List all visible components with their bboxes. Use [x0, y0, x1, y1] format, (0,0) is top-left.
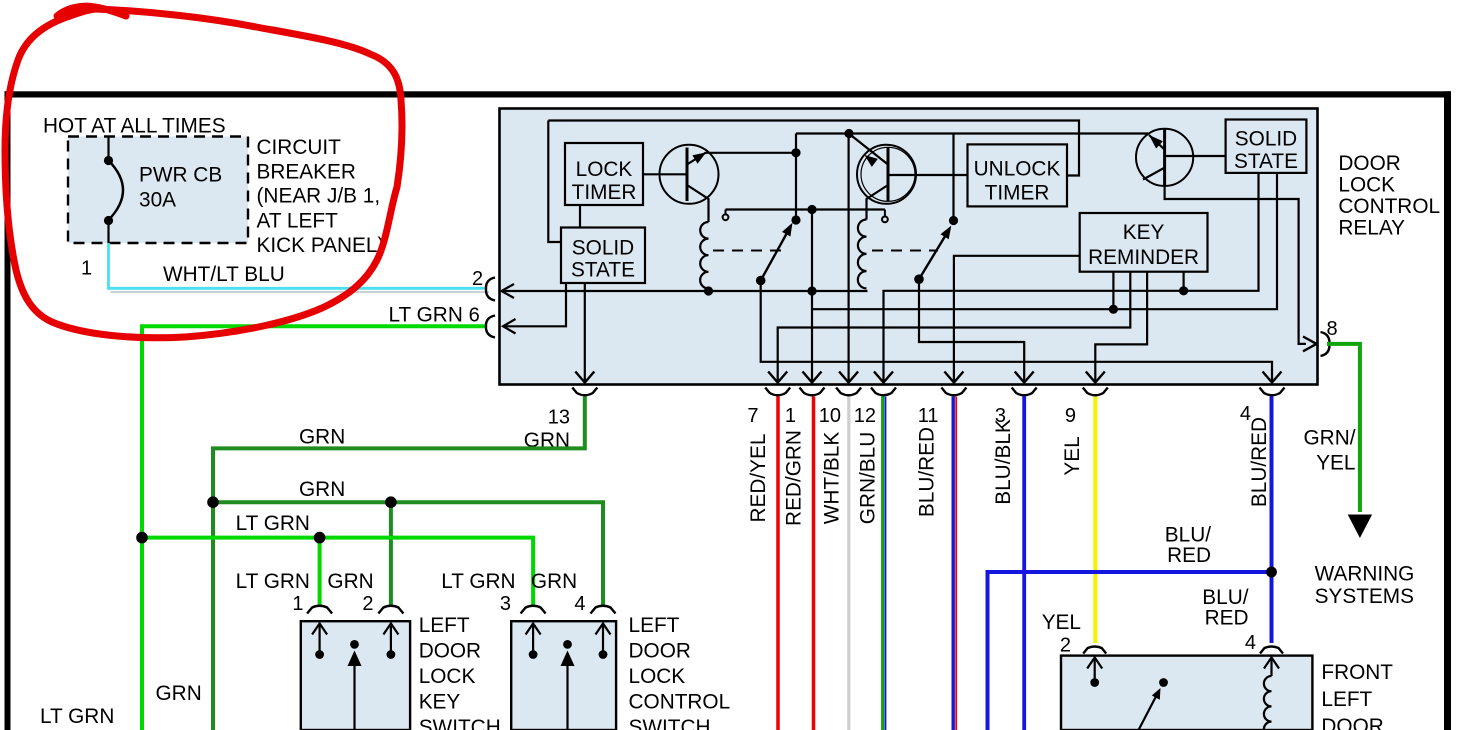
node: contact line junction to pin 1	[807, 205, 816, 214]
connector brace pin 6	[486, 316, 495, 338]
wire arrow input pin 2 inside relay	[502, 284, 868, 298]
svg-text:PWR CB: PWR CB	[139, 164, 222, 187]
connector brace key switch pin 1	[307, 606, 332, 614]
connector brace door pin 4	[1260, 647, 1283, 654]
relay coil K2	[858, 220, 867, 289]
svg-text:LT GRN: LT GRN	[236, 570, 310, 593]
wire LT GRN branch	[142, 538, 533, 607]
relay coil K1	[700, 222, 708, 289]
svg-text:11: 11	[918, 405, 939, 427]
contact line between relay contacts	[723, 210, 888, 223]
svg-text:GRN/BLU: GRN/BLU	[857, 432, 880, 524]
pin 7 arrow and connector	[765, 372, 790, 396]
wire BLU/BLK pin 3	[1022, 397, 1026, 730]
wire LT GRN to key switch pin 1	[318, 538, 322, 607]
svg-text:4: 4	[574, 593, 585, 615]
svg-text:LOCK: LOCK	[576, 158, 633, 181]
svg-text:CIRCUIT: CIRCUIT	[257, 136, 342, 159]
wire H3 pin 7 to key reminder	[778, 272, 1131, 381]
solid state box right	[1226, 120, 1307, 174]
wire key reminder to pin 9	[1095, 272, 1147, 381]
pin 12 arrow and connector	[871, 372, 896, 396]
svg-text:2: 2	[1060, 635, 1071, 657]
annotation: red hand-drawn circle around circuit breaker	[5, 6, 402, 338]
node: wire B junction to pin 10	[844, 129, 853, 138]
pin 4 arrow and connector	[1260, 372, 1285, 396]
svg-text:WARNING: WARNING	[1315, 563, 1415, 586]
wire H4 SW1 pivot to pin 4	[761, 284, 1272, 381]
svg-text:KEY: KEY	[1123, 221, 1165, 244]
svg-text:YEL: YEL	[1042, 611, 1081, 634]
svg-text:1: 1	[785, 405, 796, 427]
wire lock timer to solid state	[579, 205, 581, 228]
node: GRN junction 2	[385, 496, 397, 508]
svg-text:TIMER: TIMER	[572, 181, 637, 204]
wire SW2 pivot to pin 3	[919, 283, 1024, 381]
arrow to warning systems	[1348, 515, 1372, 539]
front left door box M1	[1061, 656, 1312, 730]
left door lock key switch box S1	[301, 621, 410, 730]
lock timer box U1	[565, 143, 643, 205]
svg-text:LOCK: LOCK	[629, 665, 686, 688]
wire H1 pin 12 to solid state leg A	[884, 174, 1259, 381]
wire BLU/RED pin 11	[953, 397, 956, 730]
svg-text:REMINDER: REMINDER	[1088, 246, 1199, 269]
svg-text:13: 13	[548, 407, 570, 429]
label CIRCUIT BREAKER (NEAR J/B 1, AT LEFT KICK PANEL)	[257, 136, 385, 257]
connector brace control switch pin 4	[591, 606, 616, 614]
svg-text:7: 7	[747, 405, 758, 427]
connector brace control switch pin 3	[521, 606, 546, 614]
transistor Q2	[850, 135, 968, 220]
svg-text:AT LEFT: AT LEFT	[257, 210, 339, 233]
svg-text:RED: RED	[1205, 607, 1249, 630]
svg-text:HOT AT ALL TIMES: HOT AT ALL TIMES	[43, 115, 226, 138]
node: coil K1 to wire1	[704, 286, 713, 295]
wire GRN from pin 13	[213, 397, 585, 730]
svg-text:(NEAR J/B 1,: (NEAR J/B 1,	[257, 185, 381, 208]
svg-text:LOCK: LOCK	[419, 665, 476, 688]
solid state box left	[561, 228, 645, 284]
connector brace key switch pin 2	[378, 606, 403, 614]
svg-text:WHT/BLK: WHT/BLK	[821, 432, 844, 525]
transistor Q3	[1136, 129, 1226, 187]
connector brace pin 2	[486, 278, 495, 301]
wire A top feed to unlock timer	[548, 121, 1079, 176]
svg-text:LEFT: LEFT	[419, 614, 470, 637]
door lock control relay box	[500, 109, 1318, 385]
svg-text:SWITCH: SWITCH	[419, 716, 501, 730]
node: LT GRN junction 2	[314, 532, 326, 544]
svg-text:CONTROL: CONTROL	[1338, 195, 1440, 218]
relay switch SW1	[756, 215, 801, 285]
wire GRN/YEL pin 8	[1327, 344, 1360, 512]
wire RED/YEL pin 7	[776, 397, 780, 730]
label FRONT LEFT DOOR	[1321, 661, 1393, 730]
svg-text:8: 8	[1327, 318, 1338, 340]
svg-text:GRN: GRN	[156, 682, 202, 705]
node: BLU/RED junction	[1266, 567, 1277, 578]
svg-text:4: 4	[1245, 632, 1256, 654]
svg-text:SYSTEMS: SYSTEMS	[1315, 585, 1414, 608]
label LEFT DOOR LOCK CONTROL SWITCH	[629, 614, 731, 730]
node: GRN junction	[207, 496, 219, 508]
node: LT GRN junction left	[136, 532, 148, 544]
label WARNING SYSTEMS	[1315, 563, 1415, 609]
svg-text:YEL: YEL	[1061, 436, 1084, 475]
wire Q3 emitter to pin 8	[1165, 187, 1306, 344]
wire WHT/LT BLU from breaker to relay pin 2	[109, 243, 490, 292]
wire solid state to pin 13	[584, 283, 586, 381]
svg-text:1: 1	[292, 593, 303, 615]
svg-text:DOOR: DOOR	[1338, 152, 1400, 175]
wire B collector bus	[796, 132, 1148, 134]
svg-text:WHT/LT BLU: WHT/LT BLU	[163, 263, 285, 286]
label GRN/YEL	[1304, 427, 1356, 475]
svg-text:CONTROL: CONTROL	[629, 691, 731, 714]
pin 11 arrow and connector	[941, 372, 966, 396]
svg-text:BLU/RED: BLU/RED	[1248, 417, 1271, 507]
wire LT GRN from junction to relay pin 6	[142, 326, 487, 730]
svg-text:GRN: GRN	[299, 426, 345, 449]
dashed linkage K1	[713, 250, 781, 252]
pin 10 arrow and connector	[836, 372, 861, 396]
svg-text:YEL: YEL	[1316, 452, 1355, 475]
circuit breaker PWR CB 30A dashed box	[68, 137, 248, 244]
svg-text:STATE: STATE	[571, 259, 635, 282]
pin 13 arrow and connector	[572, 372, 597, 396]
svg-text:UNLOCK: UNLOCK	[974, 158, 1061, 181]
wire from wire B to SW2 contact	[952, 134, 954, 221]
svg-text:RED/YEL: RED/YEL	[747, 434, 770, 523]
svg-text:GRN: GRN	[531, 570, 577, 593]
svg-text:GRN/: GRN/	[1304, 427, 1356, 450]
wire key reminder left to pin 11	[954, 256, 1080, 381]
svg-text:KICK PANEL): KICK PANEL)	[257, 234, 385, 257]
svg-text:DOOR: DOOR	[1321, 715, 1383, 730]
svg-text:TIMER: TIMER	[985, 182, 1050, 205]
svg-text:12: 12	[854, 405, 876, 427]
svg-text:RELAY: RELAY	[1338, 217, 1405, 240]
svg-text:LT GRN 6: LT GRN 6	[389, 304, 480, 327]
wire solid state left feed	[548, 121, 561, 243]
svg-text:LT GRN: LT GRN	[441, 570, 515, 593]
svg-text:RED/GRN: RED/GRN	[783, 430, 806, 526]
svg-text:SOLID: SOLID	[572, 237, 634, 260]
svg-text:SWITCH: SWITCH	[629, 716, 711, 730]
svg-text:BLU/BLK: BLU/BLK	[992, 419, 1015, 505]
svg-text:LT GRN: LT GRN	[236, 512, 310, 535]
node: Q1 collector junction	[791, 134, 800, 221]
wire arrow input pin 6 inside relay	[503, 283, 566, 334]
svg-text:9: 9	[1065, 405, 1076, 427]
label LEFT DOOR LOCK KEY SWITCH	[419, 614, 501, 730]
label BLU/ RED upper	[1165, 524, 1211, 568]
svg-text:3: 3	[500, 593, 511, 615]
svg-text:2: 2	[362, 593, 373, 615]
relay switch SW2	[914, 216, 958, 284]
unlock timer box U2	[968, 144, 1068, 206]
svg-text:LT GRN: LT GRN	[40, 705, 114, 728]
svg-text:LOCK: LOCK	[1338, 174, 1395, 197]
wire GRN/BLU pin 12	[883, 397, 886, 730]
svg-text:FRONT: FRONT	[1321, 661, 1393, 684]
wire GRN to key switch pin 2	[389, 502, 393, 606]
svg-text:KEY: KEY	[419, 691, 461, 714]
svg-text:GRN: GRN	[327, 570, 373, 593]
wire BLU/RED branch to warning systems	[988, 572, 1272, 730]
key reminder box U3	[1080, 213, 1208, 272]
svg-text:BLU/RED: BLU/RED	[916, 427, 939, 517]
wire YEL pin 9	[1093, 397, 1097, 644]
svg-text:RED: RED	[1167, 544, 1211, 567]
wire GRN branch to switches	[213, 502, 603, 606]
svg-text:DOOR: DOOR	[629, 640, 691, 663]
pin 3 arrow and connector	[1012, 372, 1037, 396]
label DOOR LOCK CONTROL RELAY	[1338, 152, 1440, 240]
svg-text:LEFT: LEFT	[629, 614, 680, 637]
svg-text:STATE: STATE	[1234, 150, 1298, 173]
svg-text:LEFT: LEFT	[1321, 688, 1372, 711]
circuit breaker element symbol	[104, 137, 123, 244]
wire pin 10 vertical	[847, 134, 849, 382]
left door lock control switch box S2	[511, 621, 616, 730]
pin 8 arrow	[1303, 337, 1317, 352]
wire WHT/BLK pin 10	[847, 397, 850, 730]
wire H2 pin1 net to solid state leg B	[812, 174, 1277, 314]
pin 1 arrow and connector	[800, 372, 825, 396]
wire BLU/RED pin 4	[1270, 397, 1274, 644]
wire RED/GRN pin 1	[812, 397, 816, 730]
svg-text:30A: 30A	[139, 189, 176, 212]
label BLU/ RED lower	[1202, 586, 1248, 630]
node: pin1 vertical to wire1	[807, 210, 816, 382]
svg-text:2: 2	[472, 268, 483, 290]
svg-text:BREAKER: BREAKER	[257, 161, 356, 184]
svg-text:1: 1	[81, 258, 92, 280]
pin 9 arrow and connector	[1083, 372, 1108, 396]
dashed linkage K2	[872, 250, 938, 252]
pin 8 connector brace	[1321, 332, 1330, 356]
svg-text:10: 10	[819, 405, 841, 427]
connector brace door pin 2	[1083, 647, 1106, 654]
svg-text:GRN: GRN	[299, 478, 345, 501]
transistor Q1	[643, 145, 796, 222]
svg-text:DOOR: DOOR	[419, 640, 481, 663]
svg-text:SOLID: SOLID	[1235, 128, 1297, 151]
